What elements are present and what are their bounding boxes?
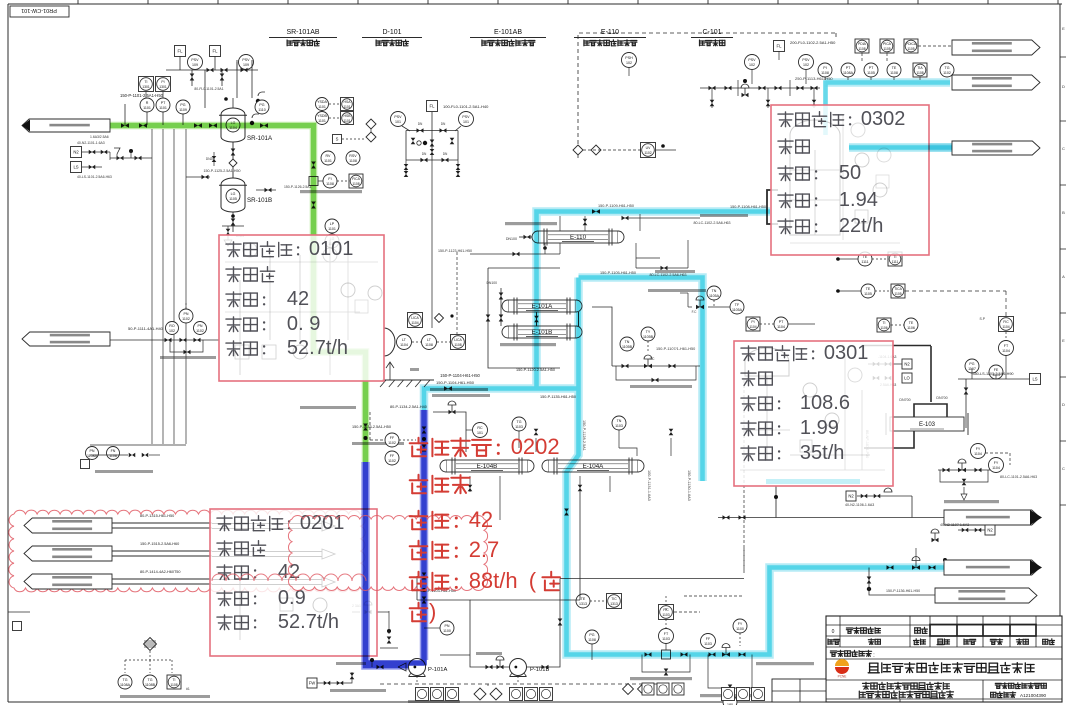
- valve drops b: [142, 453, 149, 458]
- svg-text:0202: 0202: [511, 434, 560, 459]
- svg-text:2.7: 2.7: [469, 537, 500, 562]
- cloud center: [288, 515, 487, 590]
- instrument YSA-1101: [316, 98, 329, 111]
- svg-text:0101: 0101: [309, 238, 354, 260]
- valve tc byp: [652, 378, 659, 383]
- valve loop left: [486, 315, 491, 322]
- svg-text:1111: 1111: [861, 260, 868, 264]
- title tag box PR01-CW-101: [10, 6, 69, 17]
- instrument TE-1106: [904, 318, 918, 332]
- svg-text:B: B: [1062, 210, 1065, 215]
- svg-text:PN: PN: [184, 312, 189, 316]
- title block bold cells: [930, 625, 1036, 637]
- instrument TF-1105A: [730, 300, 744, 314]
- flag to E-102AB: [952, 75, 1040, 90]
- svg-text:UV: UV: [646, 146, 651, 150]
- svg-text:80-P-1414-4A2-H60T50: 80-P-1414-4A2-H60T50: [140, 570, 181, 574]
- valve feed 1: [121, 123, 129, 128]
- valve psvm center: [430, 140, 435, 147]
- control valve mid c: [932, 538, 939, 543]
- instrument PG-1108: [585, 630, 599, 644]
- cv bypass lower: [708, 655, 752, 689]
- note above E-110: [505, 222, 557, 225]
- svg-text:1101: 1101: [159, 106, 167, 110]
- red leak unit 0202 line4: [410, 541, 428, 560]
- instrument PN-1108A: [86, 447, 99, 460]
- instrument PSV-101a: [391, 112, 406, 127]
- pump instrument row dashes: [380, 683, 660, 685]
- svg-text:1106: 1106: [907, 326, 915, 330]
- svg-text:LS: LS: [73, 165, 78, 170]
- svg-text:1108A: 1108A: [843, 71, 854, 75]
- svg-text:1105A: 1105A: [732, 308, 743, 312]
- tag FL b: [210, 46, 221, 57]
- valve p101b disch: [542, 665, 549, 670]
- instrument TG-1108A: [118, 675, 132, 689]
- tag S box: [333, 135, 342, 144]
- valve e110 vent: [583, 219, 588, 226]
- E-101 connect verticals: [536, 312, 538, 326]
- svg-text:1108: 1108: [858, 47, 865, 51]
- small notes center: [300, 406, 356, 409]
- wires between SR vessels: [232, 142, 234, 178]
- pump P-101B: [510, 659, 527, 676]
- svg-text:1103: 1103: [615, 424, 623, 428]
- instrument TE-1108: [887, 63, 901, 77]
- spillback from blue top: [435, 576, 437, 590]
- control valve cyan: [722, 652, 730, 657]
- E-110 right piping down: [635, 243, 637, 258]
- control valve c4: [912, 565, 920, 570]
- svg-text:TG: TG: [123, 678, 128, 682]
- valve n2 r2: [873, 362, 880, 367]
- valve n2 b1: [861, 494, 868, 499]
- instrument R-1101: [140, 98, 154, 112]
- svg-text:1105: 1105: [867, 71, 875, 75]
- valve blue bot1: [387, 637, 392, 644]
- valve hb l: [680, 306, 685, 308]
- tag N2 left: [71, 147, 82, 158]
- svg-text:PN: PN: [90, 449, 95, 453]
- vessel D-101 drum end: [384, 328, 395, 356]
- svg-text:1102: 1102: [182, 317, 190, 321]
- tag FW: [307, 678, 317, 688]
- wire sr101a top inlet: [232, 98, 234, 108]
- vessel SR-101A: [221, 108, 245, 142]
- svg-text:1104: 1104: [777, 325, 785, 329]
- valve transition: [363, 424, 368, 431]
- drops from green to lower area: [151, 129, 153, 444]
- svg-text:TIA: TIA: [917, 66, 923, 70]
- svg-text:109: 109: [243, 63, 249, 67]
- instrument PN-1100: [440, 621, 454, 635]
- svg-text:1108: 1108: [890, 71, 898, 75]
- svg-text:1313: 1313: [579, 602, 587, 606]
- instrument PG-1107: [965, 359, 979, 373]
- valve lo r2: [873, 376, 880, 381]
- svg-text:1109: 1109: [179, 108, 187, 112]
- wire manifold to D-101 drum: [431, 160, 433, 328]
- svg-text:150-P-1136-H61-H50: 150-P-1136-H61-H50: [886, 589, 920, 593]
- instrument FI-1108: [323, 174, 337, 188]
- svg-text:1102: 1102: [943, 71, 951, 75]
- svg-text:DN: DN: [418, 122, 423, 126]
- valve e104b bot: [468, 485, 473, 492]
- instrument LICA-1108: [451, 335, 466, 350]
- valve relief grid: [759, 86, 766, 91]
- dashed envelope C-101: [578, 33, 836, 158]
- wire TI PI stems: [145, 92, 147, 99]
- instrument FY-1100: [733, 619, 747, 633]
- svg-text:150-P-1515-2.5A6-H60: 150-P-1515-2.5A6-H60: [140, 542, 179, 546]
- svg-text:1101: 1101: [318, 119, 326, 123]
- svg-text:1.94: 1.94: [839, 189, 878, 211]
- line 150-P-1103 from E-104 to pump B: [470, 581, 560, 600]
- tag N2 b2: [985, 525, 995, 535]
- svg-text:TE: TE: [866, 287, 871, 291]
- left drops collector cluster: [90, 444, 186, 446]
- svg-text:E-103: E-103: [919, 422, 936, 428]
- off-spec C4 line: [869, 568, 935, 596]
- red leak unit 0202 line6: [410, 603, 428, 622]
- tag pump mon b1: [525, 688, 538, 701]
- valve e104b top: [534, 429, 539, 436]
- svg-text:1101: 1101: [343, 105, 350, 109]
- svg-text:FL: FL: [178, 49, 184, 54]
- valve tc l: [622, 364, 629, 369]
- E-104 bottom stubs: [469, 476, 471, 492]
- svg-text:1102: 1102: [388, 459, 396, 463]
- svg-text:E: E: [1062, 338, 1065, 343]
- svg-text:101: 101: [463, 120, 469, 124]
- svg-text:1104: 1104: [411, 321, 418, 325]
- valve srb d2: [226, 229, 231, 236]
- svg-text:1111: 1111: [892, 260, 899, 264]
- svg-text:A: A: [1062, 274, 1065, 279]
- loop top line: [488, 267, 700, 269]
- vertical header lines to SR vessels: [204, 70, 206, 108]
- minimum flow valves right of P101B: [527, 640, 560, 667]
- valve relief grid: [811, 86, 818, 91]
- valve psvm drain 406: [404, 164, 409, 170]
- wire from E-101 right to temper station: [592, 307, 612, 366]
- flag spare pv1105: [952, 40, 1040, 55]
- valve feed 2: [139, 123, 147, 128]
- valve fw b: [337, 681, 344, 686]
- exchanger E-110: [538, 231, 618, 243]
- valve psvm c1: [411, 138, 416, 145]
- svg-text:LS: LS: [1032, 377, 1037, 382]
- cyan pipe halos: [424, 389, 579, 411]
- svg-text:FY: FY: [976, 447, 981, 451]
- valve return: [194, 338, 201, 343]
- instrument TN-1105B: [620, 337, 634, 351]
- diamond ls d101: [435, 314, 444, 323]
- dashed riser from LICA: [456, 252, 458, 334]
- svg-text:50-P-1111-4A1-H40: 50-P-1111-4A1-H40: [128, 326, 164, 331]
- svg-text:F.C: F.C: [650, 357, 655, 361]
- cyan pipe reflux to P-102AB: [849, 143, 952, 152]
- SR-101B bottom drain: [232, 212, 234, 232]
- svg-text:1104: 1104: [400, 343, 408, 347]
- title block row3 texts: [828, 639, 833, 645]
- svg-text:PI: PI: [823, 66, 826, 70]
- E-103 bottom pipe: [864, 431, 914, 448]
- instrument TICA-1105: [891, 284, 905, 298]
- lowest pressure header: [718, 517, 944, 519]
- svg-text:1102: 1102: [196, 329, 204, 333]
- left stubs of E-101: [500, 288, 502, 326]
- instrument PI-1301: [156, 77, 171, 92]
- flow element FE-1108: [309, 177, 318, 186]
- svg-text:LP: LP: [330, 222, 335, 226]
- tag pump mon b2: [540, 688, 553, 701]
- temper bypass: [616, 366, 696, 380]
- instrument FIC-1103: [659, 605, 674, 620]
- svg-text:E-110: E-110: [570, 234, 587, 241]
- svg-text:FL: FL: [213, 49, 219, 54]
- svg-text:N2: N2: [73, 150, 79, 155]
- svg-text:TE: TE: [892, 66, 897, 70]
- instrument FN-1108: [107, 447, 120, 460]
- svg-text:D: D: [1062, 402, 1065, 407]
- instrument RC-101: [473, 423, 488, 438]
- svg-text:1101: 1101: [318, 105, 326, 109]
- extra ghost content inside 0302: [790, 115, 900, 243]
- diamond interlock a: [366, 119, 376, 129]
- title block owner row: [830, 651, 836, 656]
- svg-text:1104: 1104: [1002, 325, 1009, 329]
- valve e101 mid: [534, 316, 539, 323]
- svg-text:150-P-1135-H61-H50: 150-P-1135-H61-H50: [540, 395, 576, 399]
- svg-text:1106: 1106: [880, 326, 887, 330]
- svg-text:PG: PG: [259, 103, 264, 107]
- dashed link to FIC: [743, 548, 745, 570]
- instrument TY-1105B: [641, 327, 655, 341]
- svg-text:1301: 1301: [142, 85, 150, 89]
- diamond bc2: [638, 684, 649, 695]
- instrument PSV-102a: [745, 55, 760, 70]
- svg-text:PN: PN: [198, 324, 203, 328]
- svg-text:FL: FL: [777, 44, 783, 49]
- svg-text:PSV: PSV: [748, 58, 756, 62]
- svg-text:22t/h: 22t/h: [839, 215, 883, 237]
- svg-text:1.6A3/2.5A6: 1.6A3/2.5A6: [90, 135, 109, 139]
- svg-text:42: 42: [287, 288, 309, 310]
- instrument PG-1109: [176, 100, 190, 114]
- svg-text:SR-101A: SR-101A: [247, 135, 273, 142]
- exchanger E-101A: [508, 300, 576, 312]
- cross header above pumps: [416, 576, 418, 588]
- valve riser: [311, 162, 316, 169]
- svg-text:1301: 1301: [159, 85, 167, 89]
- svg-text:80-P-1315-H61-H50: 80-P-1315-H61-H50: [140, 514, 174, 518]
- valve blue v4: [422, 597, 427, 604]
- orifice bypass: [642, 655, 690, 673]
- svg-text:DN: DN: [441, 122, 446, 126]
- instrument TI-1108: [167, 675, 181, 689]
- tag LS left: [71, 162, 82, 173]
- red leak unit 0202 line2: [410, 475, 428, 494]
- valve fw a: [324, 681, 331, 686]
- cyan ghost inside box 0301: [766, 479, 860, 484]
- valve feed 5: [260, 123, 268, 128]
- valve c4 a: [887, 565, 894, 570]
- svg-text:YSDB: YSDB: [317, 114, 327, 118]
- temper control station: [612, 365, 700, 367]
- valve cyan mid: [444, 386, 452, 391]
- svg-text:PDICA: PDICA: [906, 42, 917, 46]
- svg-text:1108A: 1108A: [120, 683, 131, 687]
- svg-text:N2: N2: [904, 362, 910, 367]
- exchanger E-101B: [508, 326, 576, 338]
- tag LO r1: [902, 373, 912, 383]
- tag pump mon a1: [431, 688, 444, 701]
- valve feed drain: [230, 131, 235, 138]
- dashed from FIC to cyan valve: [665, 596, 667, 611]
- svg-text:E: E: [1062, 26, 1065, 31]
- relief risers: [751, 70, 753, 84]
- tag pump mon b0: [510, 688, 523, 701]
- svg-text:100-P-1131-1.6A3: 100-P-1131-1.6A3: [647, 470, 651, 501]
- svg-text:101: 101: [477, 431, 483, 435]
- pump P-101A: [409, 659, 426, 676]
- valve cyan fo r: [681, 652, 688, 657]
- svg-text:101: 101: [395, 120, 401, 124]
- fv bypass: [940, 470, 988, 482]
- tag util bl: [13, 622, 22, 631]
- svg-text:350-LS-1103-2.5A6-H90: 350-LS-1103-2.5A6-H90: [972, 372, 1013, 376]
- instrument YSB-1101: [316, 112, 329, 125]
- diamond SR drain: [229, 159, 237, 167]
- relief piping top-left: [179, 56, 181, 70]
- svg-text:150-P-1123-H61-H50: 150-P-1123-H61-H50: [438, 249, 472, 253]
- tag N2 b1: [846, 491, 856, 501]
- svg-text:C: C: [1062, 146, 1065, 151]
- instrument PDIA-1108: [855, 39, 869, 53]
- tag bct 1: [657, 683, 669, 695]
- svg-text:1105: 1105: [883, 47, 890, 51]
- instrument TIA-1108: [913, 63, 927, 77]
- valve return: [180, 338, 187, 343]
- control valve p101b: [497, 665, 504, 670]
- blue pipe halo: [366, 462, 409, 666]
- svg-text:FY: FY: [994, 461, 999, 465]
- pipe loop rectangle right of D-101: [488, 268, 560, 368]
- valve lo r1: [885, 376, 892, 381]
- strainer cone suction A: [398, 663, 406, 671]
- svg-text:1108: 1108: [916, 71, 923, 75]
- exchanger E-104A: [548, 460, 638, 472]
- control valve temper: [644, 364, 652, 369]
- instrument PDICA-1105: [904, 39, 918, 53]
- red leak unit 0202 line3: [410, 511, 428, 530]
- svg-text:1105B: 1105B: [622, 345, 633, 349]
- valve sr m3: [241, 68, 248, 73]
- svg-text:P-101A: P-101A: [428, 667, 447, 673]
- svg-text:150-P-1101-2.5A1-H50: 150-P-1101-2.5A1-H50: [120, 93, 164, 98]
- red leak unit 0202 line1: [410, 438, 428, 457]
- valve blue v1: [422, 427, 427, 434]
- instrument FT-1104: [999, 341, 1014, 356]
- svg-text:1.99: 1.99: [800, 417, 839, 439]
- wire E-104A bottom to suction header: [579, 492, 581, 600]
- svg-text:S: S: [336, 137, 339, 142]
- svg-text:LICA: LICA: [454, 338, 462, 342]
- cluster right of blue top: [433, 412, 466, 452]
- diamond interlock b: [366, 132, 376, 142]
- instrument LT-1108: [422, 335, 437, 350]
- strainer cone suction B: [498, 656, 506, 664]
- black dot junction c4: [867, 587, 871, 591]
- svg-text:PI: PI: [161, 80, 164, 84]
- svg-text:PSV: PSV: [462, 115, 470, 119]
- valve SR inter a: [231, 149, 236, 156]
- svg-text:40-LS-1101-2.5A6-H63: 40-LS-1101-2.5A6-H63: [77, 175, 112, 179]
- E-101 notes: [500, 343, 556, 346]
- instrument UV-1102: [641, 143, 656, 158]
- svg-text:PG: PG: [969, 362, 974, 366]
- valve psvm drain 458: [456, 164, 461, 170]
- cyan pipe top right to E-102AB: [826, 83, 951, 136]
- svg-text:HSA: HSA: [344, 100, 352, 104]
- valve drops a: [129, 453, 136, 458]
- discharge P-101B riser: [527, 640, 560, 667]
- cyan pipe main routes: [424, 389, 579, 411]
- instrument FY-1104a: [971, 444, 986, 459]
- svg-text:RC: RC: [477, 426, 483, 430]
- valve n2 c1: [962, 528, 969, 533]
- valve srb out: [265, 188, 272, 193]
- instrument PSV-109b: [239, 55, 254, 70]
- svg-text:1105A: 1105A: [709, 294, 720, 298]
- bold pipe bracket into C-101: [767, 190, 778, 224]
- svg-text:HSB: HSB: [344, 114, 352, 118]
- svg-text:TN: TN: [712, 289, 717, 293]
- svg-text:1102: 1102: [388, 441, 396, 445]
- valve cyan cv r: [739, 652, 746, 657]
- E-110 bottom piping: [559, 243, 561, 254]
- svg-text:PSV: PSV: [191, 58, 199, 62]
- instrument PICA-1105: [880, 39, 894, 53]
- instrument TG-1102: [940, 63, 954, 77]
- svg-text:9: 9: [309, 313, 320, 335]
- flag P-1405: [24, 574, 112, 589]
- instrument PN-1102b: [194, 322, 207, 335]
- valve e101a in: [499, 293, 504, 300]
- ghost instruments inside 0101: [235, 255, 382, 375]
- valve relief grid: [725, 86, 732, 91]
- svg-text:80-LC-1101-2.5A6-H63: 80-LC-1101-2.5A6-H63: [1000, 475, 1037, 479]
- E-110 top vent piping: [584, 216, 586, 231]
- svg-text:1100: 1100: [736, 627, 744, 631]
- svg-text:1103: 1103: [662, 613, 669, 617]
- valve ls line: [964, 388, 969, 395]
- tag pump mon a0: [416, 688, 429, 701]
- exchanger E-104B: [446, 460, 528, 472]
- instrument TI-1301: [139, 77, 154, 92]
- instrument TI-1106: [877, 318, 891, 332]
- svg-text:0302: 0302: [861, 108, 906, 130]
- svg-text:S.P: S.P: [980, 317, 986, 321]
- svg-text:88t/h: 88t/h: [469, 568, 518, 593]
- flow element cyan: [662, 650, 671, 659]
- instrument FF-1103: [701, 634, 716, 649]
- svg-text:1108: 1108: [454, 343, 461, 347]
- valve psvm drain2 458: [456, 171, 461, 177]
- valve sr m2: [221, 68, 228, 73]
- svg-text:1110: 1110: [258, 108, 265, 112]
